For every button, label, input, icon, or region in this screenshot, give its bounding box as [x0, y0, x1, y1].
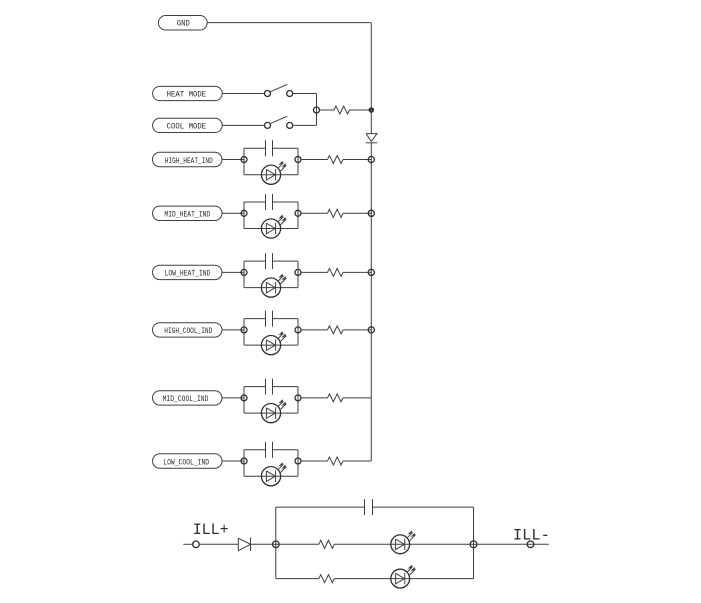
svg-text:MID_COOL_IND: MID_COOL_IND — [163, 394, 209, 404]
svg-text:LOW_COOL_IND: LOW_COOL_IND — [163, 457, 209, 467]
svg-text:MID_HEAT_IND: MID_HEAT_IND — [164, 210, 210, 220]
svg-text:LOW_HEAT_IND: LOW_HEAT_IND — [165, 269, 211, 279]
svg-text:GND: GND — [177, 18, 190, 28]
svg-text:COOL MODE: COOL MODE — [167, 121, 207, 131]
svg-text:HIGH_COOL_IND: HIGH_COOL_IND — [164, 326, 212, 336]
svg-text:HIGH_HEAT_IND: HIGH_HEAT_IND — [165, 156, 213, 166]
svg-text:HEAT MODE: HEAT MODE — [167, 90, 207, 100]
svg-text:ILL+: ILL+ — [193, 521, 229, 539]
